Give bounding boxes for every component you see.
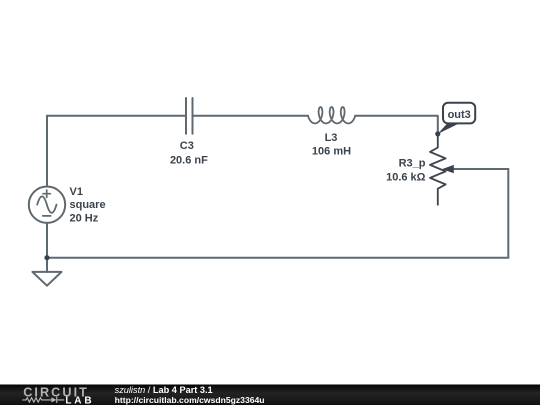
out3 label balloon bbox=[443, 103, 475, 124]
label R3_p designator bbox=[386, 158, 426, 184]
ground bbox=[32, 258, 61, 286]
voltage source V1 bbox=[29, 187, 65, 223]
svg-text:LAB: LAB bbox=[65, 396, 94, 405]
svg-text:szulistn / Lab 4 Part 3.1: szulistn / Lab 4 Part 3.1 bbox=[115, 385, 213, 395]
svg-text:C3: C3 bbox=[180, 140, 194, 152]
capacitor C3 bbox=[186, 98, 193, 134]
node dot at out3 bbox=[435, 131, 440, 136]
svg-text:20.6 nF: 20.6 nF bbox=[170, 155, 208, 167]
wire right vertical bbox=[507, 169, 509, 258]
wire V1 to ground node bbox=[46, 223, 48, 258]
svg-text:106 mH: 106 mH bbox=[312, 145, 351, 157]
svg-text:10.6 kΩ: 10.6 kΩ bbox=[386, 172, 426, 184]
svg-text:R3_p: R3_p bbox=[399, 158, 426, 170]
inductor L3 bbox=[308, 107, 355, 123]
svg-text:out3: out3 bbox=[448, 109, 471, 121]
footer bar bbox=[0, 385, 540, 405]
wire top-left horizontal bbox=[47, 115, 186, 117]
arrowhead of R3_p wiper bbox=[442, 165, 454, 173]
wire bottom horizontal bbox=[47, 257, 508, 259]
wire cap to inductor bbox=[193, 115, 309, 117]
CircuitLab logo diode triangle bbox=[51, 397, 56, 402]
wire left vertical bbox=[46, 116, 48, 187]
svg-text:L3: L3 bbox=[325, 132, 338, 144]
node dot at ground bbox=[44, 255, 49, 260]
wiper arrow of R3_p bbox=[454, 168, 509, 170]
out3 label balloon tail bbox=[438, 123, 461, 134]
label L3 designator bbox=[312, 132, 351, 157]
resistor R3_p (potentiometer) bbox=[430, 134, 446, 205]
svg-text:V1: V1 bbox=[70, 186, 83, 198]
label C3 designator bbox=[170, 140, 208, 167]
wire inductor to node bbox=[355, 116, 438, 134]
svg-text:http://circuitlab.com/cwsdn5gz: http://circuitlab.com/cwsdn5gz3364u bbox=[115, 395, 265, 405]
svg-text:square: square bbox=[70, 199, 106, 211]
label V1 designator bbox=[70, 186, 106, 224]
svg-text:20 Hz: 20 Hz bbox=[70, 212, 99, 224]
CircuitLab logo squiggle (resistor+diode) bbox=[22, 397, 64, 403]
